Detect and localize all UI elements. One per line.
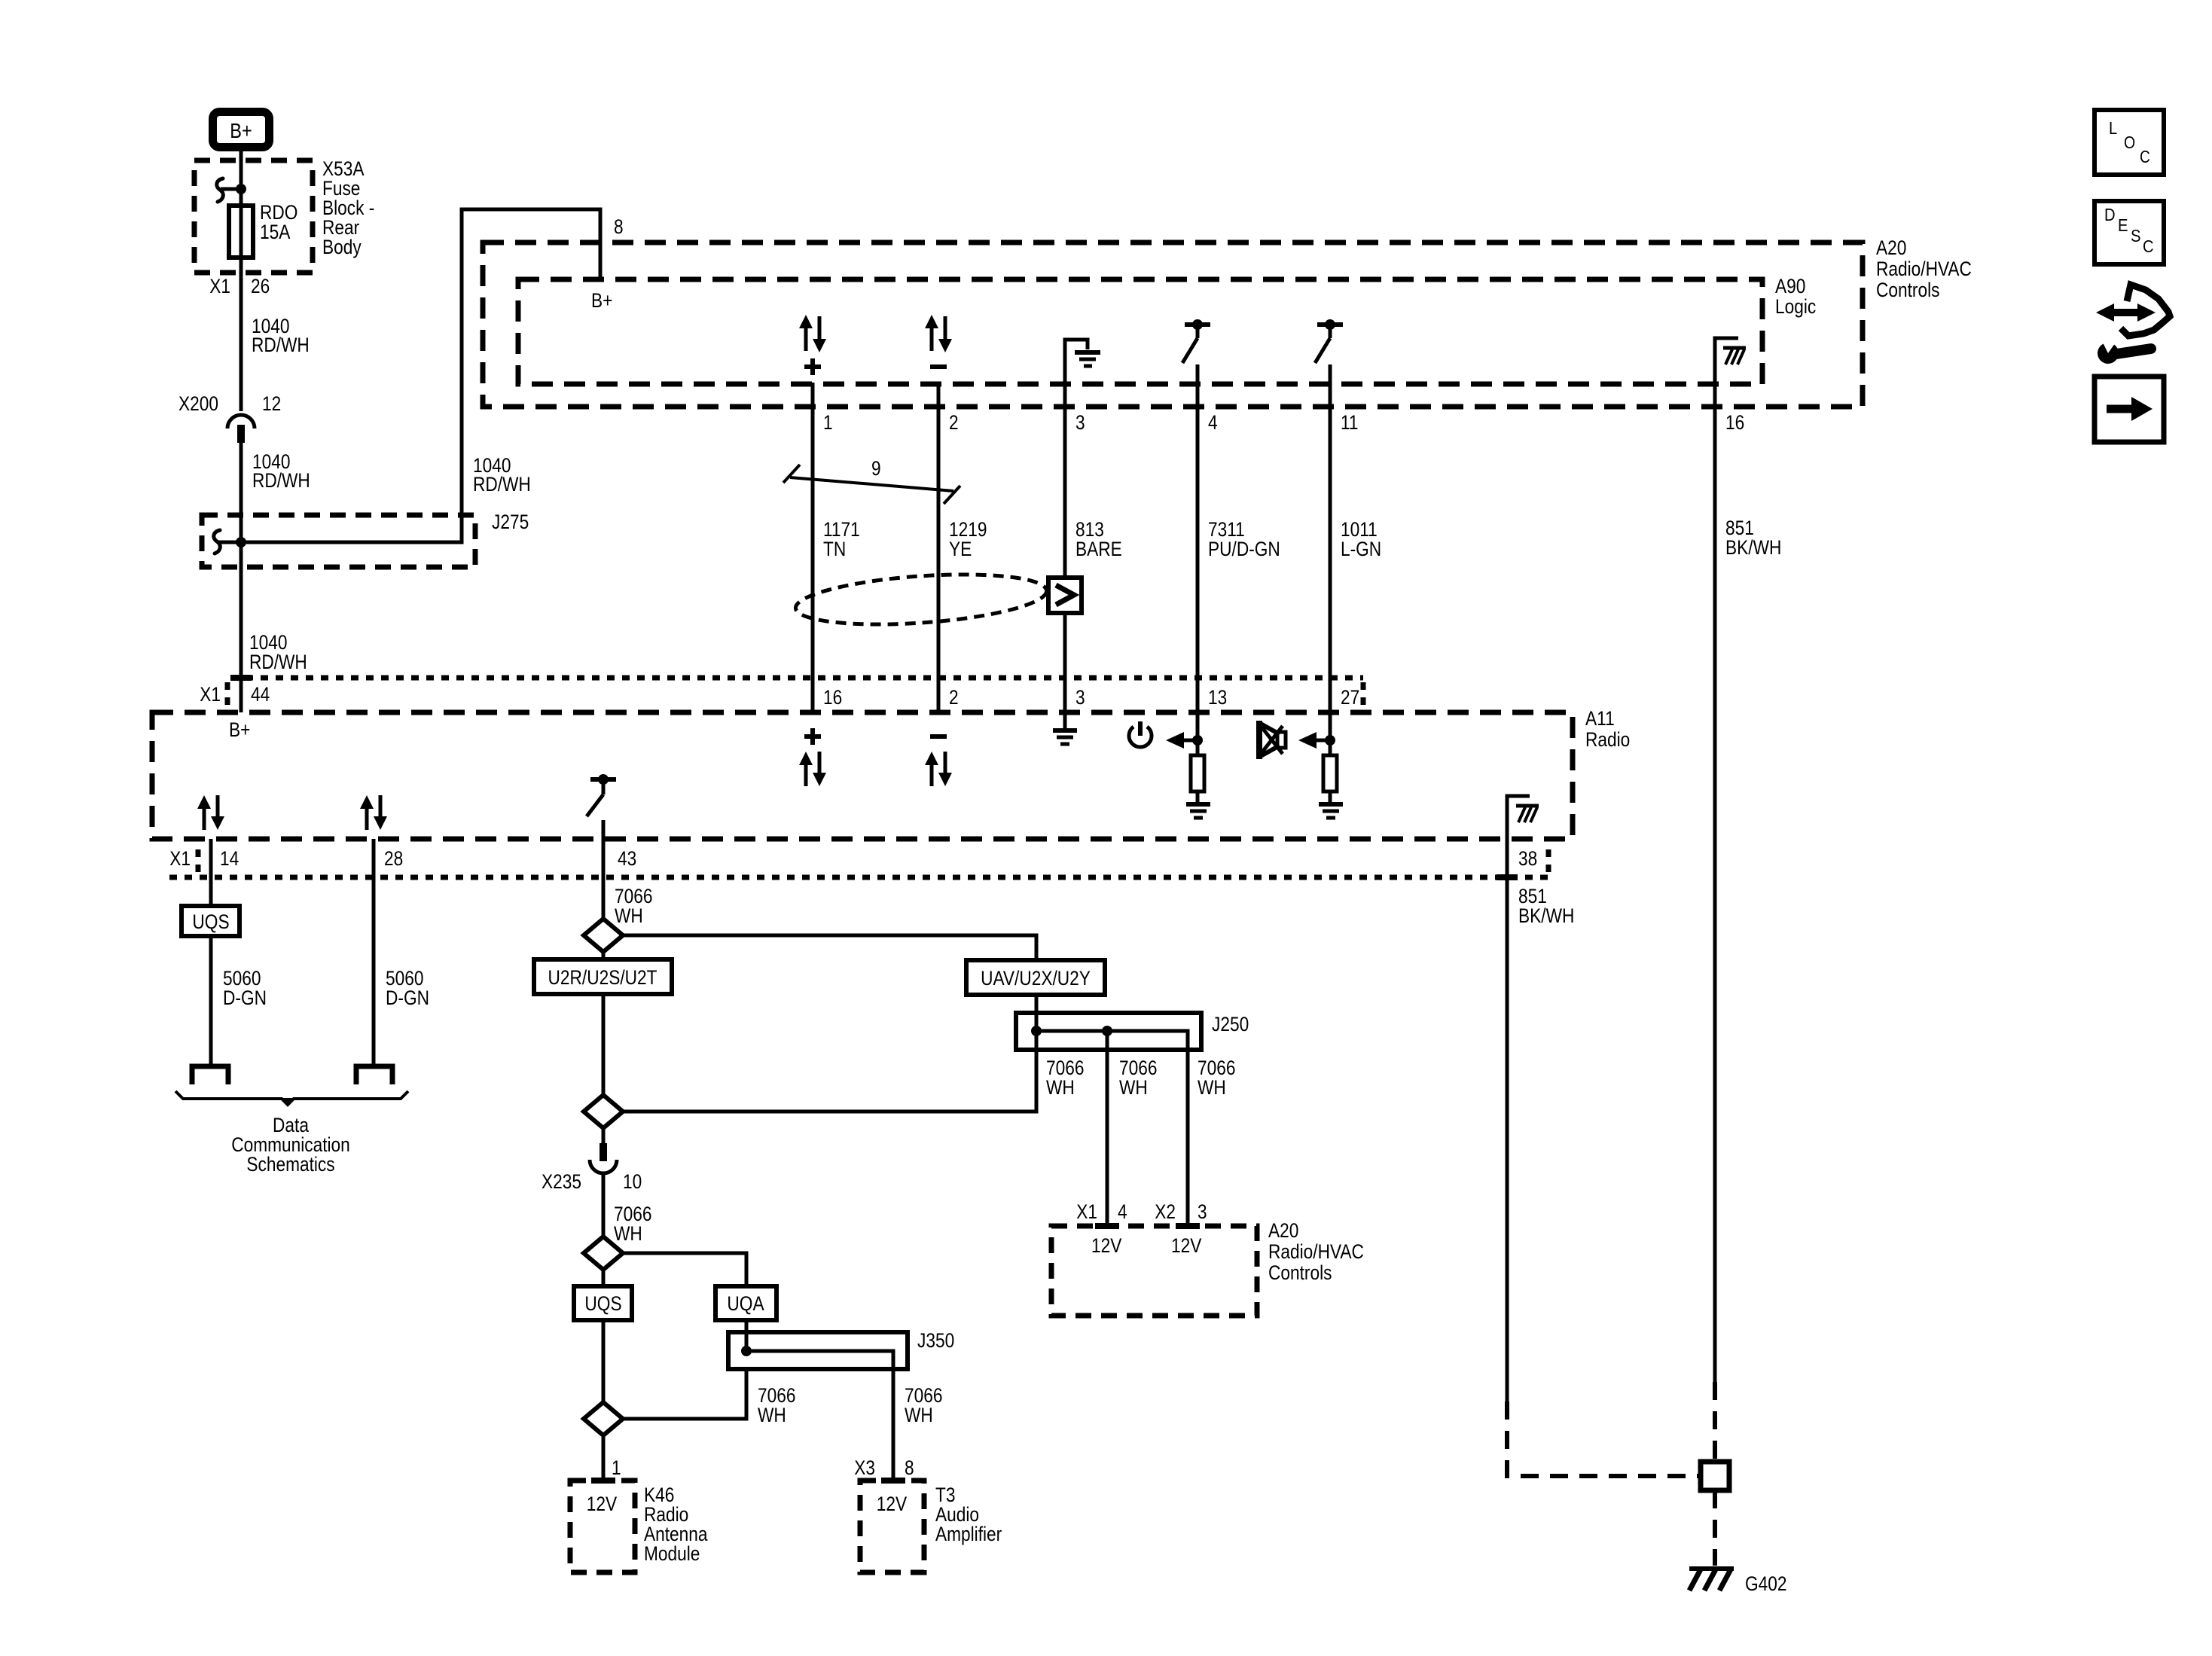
wire 1171 TN	[813, 383, 860, 712]
svg-text:D: D	[2104, 205, 2116, 224]
wire diamond 4 to K46 pin 1	[591, 1435, 621, 1481]
twisted pair ellipse	[794, 567, 1048, 631]
wire through fuse	[240, 189, 243, 273]
wire 1040 RD/WH J275 to radio pin 44	[241, 567, 307, 712]
label 7066 WH J250 right	[1198, 1057, 1236, 1099]
svg-text:B+: B+	[229, 718, 250, 741]
svg-text:12V: 12V	[1171, 1234, 1201, 1257]
power symbol B+	[213, 112, 270, 148]
connector line X1 pins 16 2 3 13 27 labels	[823, 686, 1359, 709]
svg-text:J250: J250	[1212, 1013, 1249, 1035]
junction dot J350	[741, 1346, 752, 1356]
fuse block X53A dashed box	[194, 160, 313, 273]
wire UQA to J350	[745, 1320, 749, 1351]
svg-text:X1: X1	[169, 847, 191, 870]
svg-text:J275: J275	[492, 511, 529, 533]
svg-text:RD/WH: RD/WH	[252, 469, 310, 492]
pin 13 power icon	[1129, 721, 1152, 747]
pin 27 muted speaker icon	[1259, 721, 1286, 759]
svg-text:3: 3	[1075, 686, 1085, 709]
wire 851 BK/WH right side	[1715, 383, 1781, 1382]
svg-text:X3: X3	[854, 1456, 875, 1479]
wire 1040 RD/WH X200 to J275	[241, 443, 310, 712]
svg-text:1: 1	[823, 411, 833, 434]
svg-text:C: C	[2140, 147, 2150, 166]
svg-text:A90: A90	[1775, 275, 1805, 297]
svg-text:X2: X2	[1155, 1200, 1176, 1223]
legend DESC box	[2095, 201, 2164, 264]
svg-text:WH: WH	[614, 1222, 642, 1245]
wire pin 14 to UQS	[209, 839, 213, 906]
svg-text:G402: G402	[1745, 1572, 1787, 1595]
svg-text:UQS: UQS	[192, 910, 229, 933]
option box UQS left	[182, 906, 240, 936]
wire 7066 WH X235 to diamond 3	[603, 1172, 652, 1245]
wire UAV to J250	[1035, 995, 1039, 1050]
svg-text:WH: WH	[905, 1404, 933, 1426]
svg-text:J350: J350	[917, 1329, 954, 1352]
svg-text:10: 10	[623, 1170, 642, 1193]
svg-text:14: 14	[220, 847, 239, 870]
twisted pair marker 9	[783, 457, 960, 504]
svg-text:RD/WH: RD/WH	[249, 651, 307, 673]
pin labels X1 14 28 43 38	[169, 847, 1537, 870]
connector clip symbol in J275	[214, 530, 220, 554]
svg-text:12V: 12V	[877, 1493, 907, 1515]
pin numbers A20 bottom	[823, 411, 1744, 434]
svg-text:12: 12	[262, 392, 281, 415]
pin 16 ground symbol A90	[1715, 338, 1746, 383]
wire diamond 1 to UAV box	[623, 935, 1036, 960]
svg-text:12V: 12V	[1091, 1234, 1121, 1257]
pin labels X1 44	[200, 683, 270, 706]
svg-text:A11: A11	[1585, 707, 1615, 730]
svg-text:WH: WH	[1046, 1076, 1075, 1099]
svg-text:D-GN: D-GN	[223, 987, 267, 1009]
svg-text:Controls: Controls	[1268, 1261, 1332, 1284]
wire 5060 D-GN left	[211, 936, 267, 1065]
pin 38 ground symbol A11	[1507, 796, 1539, 839]
pin 3 ground symbol A11	[1053, 712, 1077, 744]
svg-text:E: E	[2118, 215, 2128, 235]
svg-text:2: 2	[949, 686, 959, 709]
svg-text:8: 8	[614, 215, 624, 238]
svg-text:D-GN: D-GN	[386, 987, 429, 1009]
brace data communication	[175, 1091, 408, 1106]
svg-text:8: 8	[905, 1456, 914, 1479]
pin 14 CAN arrows	[197, 795, 224, 830]
A20 Radio/HVAC Controls dashed box	[483, 236, 1972, 407]
svg-text:RD/WH: RD/WH	[252, 334, 310, 356]
svg-text:X1: X1	[209, 275, 230, 297]
svg-text:12V: 12V	[587, 1493, 617, 1515]
splice J250 box	[1016, 1013, 1249, 1050]
wire 813 BARE	[1065, 383, 1122, 712]
pin labels X1 26	[209, 275, 270, 297]
splice diamond 4	[584, 1402, 623, 1435]
wire 5060 D-GN right	[374, 839, 429, 1065]
J250 bus	[1031, 1026, 1188, 1226]
A11 Radio dashed box	[152, 707, 1630, 839]
splice J275 dashed box	[202, 511, 529, 567]
svg-text:Logic: Logic	[1775, 295, 1816, 318]
svg-text:4: 4	[1208, 411, 1218, 434]
pin labels X3 8	[854, 1456, 914, 1481]
svg-text:UQS: UQS	[584, 1292, 621, 1315]
label X53A Fuse Block - Rear Body	[322, 157, 374, 258]
svg-text:WH: WH	[1198, 1076, 1226, 1099]
shield drain box	[1048, 578, 1082, 613]
wire J350 bus to audio amplifier	[746, 1351, 893, 1481]
svg-text:B+: B+	[591, 289, 612, 312]
svg-text:3: 3	[1075, 411, 1085, 434]
dashed wire right to ground splice	[1713, 1382, 1717, 1462]
wire 1219 YE	[938, 383, 987, 712]
svg-text:11: 11	[1341, 411, 1359, 434]
splice diamond 2	[584, 1095, 623, 1128]
junction dot	[236, 184, 246, 194]
label K46 Radio Antenna Module	[644, 1484, 708, 1565]
pin labels X1 4 X2 3	[1076, 1200, 1207, 1226]
svg-text:28: 28	[384, 847, 403, 870]
label 7066 WH J250 middle	[1119, 1057, 1158, 1099]
splice diamond 1	[584, 919, 623, 952]
svg-text:RD/WH: RD/WH	[473, 473, 531, 496]
svg-text:9: 9	[871, 457, 881, 480]
svg-text:X1: X1	[200, 683, 221, 706]
svg-text:BK/WH: BK/WH	[1725, 536, 1781, 559]
pin 43 antenna switch symbol	[587, 774, 616, 816]
off page connector left	[192, 1066, 228, 1084]
label Data Communication Schematics	[231, 1114, 350, 1176]
junction dot J275	[218, 537, 246, 547]
svg-text:UAV/U2X/U2Y: UAV/U2X/U2Y	[981, 967, 1091, 990]
svg-text:16: 16	[823, 686, 842, 709]
svg-text:Radio: Radio	[1585, 728, 1630, 751]
svg-text:TN: TN	[823, 538, 846, 560]
svg-text:38: 38	[1518, 847, 1537, 870]
svg-text:Controls: Controls	[1876, 279, 1940, 301]
label 1040 RD/WH right branch	[473, 454, 531, 496]
wire J350 to diamond 4	[623, 1369, 746, 1419]
pin 1 audio + symbol with arrows	[799, 315, 826, 375]
pin 2 audio - symbol with arrows A11	[925, 737, 952, 786]
svg-text:WH: WH	[615, 904, 643, 927]
legend vehicle icon	[2096, 285, 2170, 364]
svg-text:U2R/U2S/U2T: U2R/U2S/U2T	[548, 966, 657, 989]
svg-text:UQA: UQA	[727, 1292, 764, 1315]
svg-text:BK/WH: BK/WH	[1518, 904, 1574, 927]
label 7066 WH at J350 right	[905, 1384, 943, 1426]
label 7066 WH at J350 left	[758, 1384, 796, 1426]
fuse RDO 15A	[229, 201, 297, 258]
wire 1040 RD/WH fuse to X200	[241, 273, 310, 411]
svg-text:O: O	[2124, 133, 2135, 152]
wire diamond 2 to J250	[623, 1050, 1036, 1112]
legend arrow box	[2095, 377, 2164, 442]
svg-text:Body: Body	[322, 236, 362, 258]
legend LOC box	[2095, 110, 2164, 175]
T3 Audio Amplifier dashed box	[860, 1481, 924, 1572]
svg-text:X1: X1	[1076, 1200, 1097, 1223]
dashed wire pin 38 to ground splice	[1507, 1401, 1698, 1476]
wire UQS to diamond 4	[602, 1320, 606, 1402]
connector clip symbol in fuse block	[217, 178, 241, 202]
wire J250 middle to A20	[1106, 1031, 1109, 1226]
svg-text:C: C	[2143, 236, 2154, 256]
pin 16 audio + symbol with arrows A11	[799, 728, 826, 786]
svg-text:A20: A20	[1268, 1219, 1298, 1242]
splice diamond 3	[584, 1237, 623, 1270]
pin 11 switch symbol	[1315, 319, 1343, 363]
pin 4 switch symbol	[1182, 319, 1210, 363]
wire U2R box to diamond 2	[602, 994, 606, 1095]
label 7066 WH J250 left	[1046, 1057, 1085, 1099]
connector X200 pin 12	[178, 392, 281, 443]
svg-text:2: 2	[949, 411, 959, 434]
svg-text:27: 27	[1341, 686, 1359, 709]
ground G402	[1689, 1569, 1787, 1595]
ground splice square	[1701, 1462, 1729, 1490]
A20 Radio/HVAC Controls bottom dashed box	[1051, 1226, 1257, 1316]
option box UQS lower	[574, 1270, 632, 1320]
connector X235 pin 10	[542, 1128, 642, 1193]
svg-text:WH: WH	[758, 1404, 786, 1426]
svg-text:16: 16	[1725, 411, 1744, 434]
svg-text:B+: B+	[230, 119, 252, 142]
option box UQA	[715, 1286, 776, 1320]
svg-text:43: 43	[618, 847, 636, 870]
svg-text:1: 1	[612, 1456, 621, 1479]
svg-text:Schematics: Schematics	[246, 1153, 334, 1176]
pin 27 arrow and resistor to ground	[1298, 712, 1343, 818]
label A20 Radio/HVAC Controls bottom	[1268, 1219, 1364, 1284]
pin 13 arrow and resistor to ground	[1166, 712, 1210, 818]
wire diamond 3 to UQA	[623, 1253, 746, 1286]
wire 7066 WH from pin 43	[603, 820, 653, 927]
svg-text:BARE: BARE	[1075, 538, 1122, 560]
option box U2R/U2S/U2T	[534, 952, 672, 994]
svg-text:13: 13	[1208, 686, 1227, 709]
option box UAV/U2X/U2Y	[966, 960, 1105, 995]
K46 Radio Antenna Module dashed box	[570, 1481, 635, 1572]
svg-text:YE: YE	[949, 538, 972, 560]
connector line X1 of radio bottom	[169, 849, 1548, 877]
off page connector right	[356, 1066, 392, 1084]
pin 2 audio - symbol with arrows	[925, 315, 952, 367]
svg-text:A20: A20	[1876, 236, 1906, 259]
splice J350 box	[728, 1329, 954, 1369]
svg-text:L-GN: L-GN	[1341, 538, 1381, 560]
svg-text:X235: X235	[542, 1170, 581, 1193]
svg-text:Radio/HVAC: Radio/HVAC	[1876, 258, 1972, 280]
svg-text:X200: X200	[178, 392, 218, 415]
svg-text:Radio/HVAC: Radio/HVAC	[1268, 1240, 1364, 1263]
svg-text:WH: WH	[1119, 1076, 1148, 1099]
A90 Logic dashed box	[518, 275, 1816, 384]
label T3 Audio Amplifier	[935, 1484, 1002, 1545]
svg-text:PU/D-GN: PU/D-GN	[1208, 538, 1280, 560]
dashed wire splice to G402	[1713, 1490, 1717, 1566]
svg-text:Amplifier: Amplifier	[935, 1523, 1002, 1545]
svg-text:4: 4	[1118, 1200, 1127, 1223]
wire B+ to fuse block	[240, 151, 243, 189]
svg-text:44: 44	[251, 683, 270, 706]
svg-text:26: 26	[251, 275, 270, 297]
svg-text:Module: Module	[644, 1542, 700, 1565]
wire 851 BK/WH from pin 38	[1507, 839, 1574, 1401]
pin 3 ground symbol A90	[1065, 340, 1100, 383]
pin 28 CAN arrows	[360, 795, 387, 830]
svg-text:L: L	[2109, 118, 2117, 138]
svg-text:3: 3	[1198, 1200, 1207, 1223]
wire 1011 L-GN	[1330, 364, 1381, 712]
wire J275 splice to pin 8	[241, 209, 624, 542]
svg-text:15A: 15A	[260, 221, 290, 243]
svg-text:S: S	[2131, 226, 2141, 246]
connector line X1 of radio top	[227, 678, 1363, 709]
wire 7311 PU/D-GN	[1198, 364, 1280, 712]
